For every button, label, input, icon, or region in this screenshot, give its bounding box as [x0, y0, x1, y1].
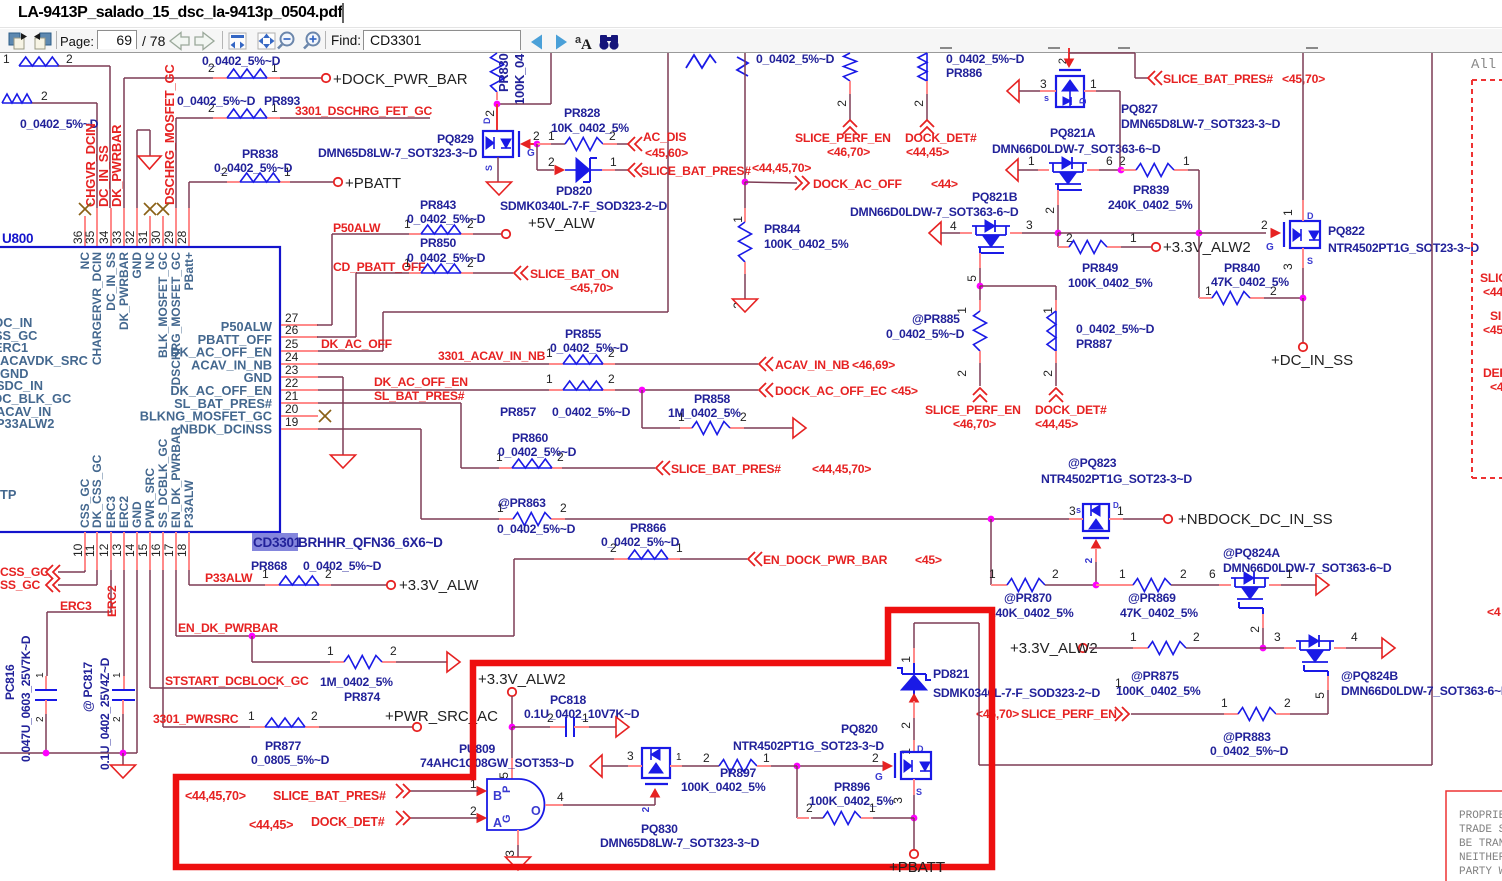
- wire pin23 gnd: [318, 377, 343, 455]
- svg-text:PROPRIET: PROPRIET: [1459, 810, 1502, 822]
- svg-text:12: 12: [97, 543, 111, 557]
- svg-text:<46,70>: <46,70>: [976, 707, 1019, 721]
- mosfet PQ821A dual: [1049, 157, 1087, 184]
- svg-text:2: 2: [483, 110, 497, 117]
- labels PR839: [1108, 183, 1193, 212]
- svg-text:PR855: PR855: [565, 327, 601, 341]
- svg-text:SDMK0340L-7-F_SOD323-2~D: SDMK0340L-7-F_SOD323-2~D: [933, 686, 1101, 700]
- wire row1 to pin 34: [58, 66, 110, 208]
- wire vertical x1432: [1431, 53, 1433, 765]
- cut component top b: [737, 57, 748, 76]
- svg-text:SLICE_PERF_EN: SLICE_PERF_EN: [925, 403, 1021, 417]
- port SLICE_PERF_EN bottom: [925, 388, 1021, 431]
- svg-text:2: 2: [899, 722, 913, 729]
- wire PR828 left: [533, 129, 565, 144]
- resistor PR843: [404, 217, 474, 234]
- svg-text:PR857: PR857: [500, 405, 536, 419]
- svg-text:DSCHRG_MOSFET_GC: DSCHRG_MOSFET_GC: [162, 64, 177, 205]
- resistor PR874: [327, 644, 397, 669]
- svg-text:2: 2: [1084, 557, 1095, 563]
- labels PR866: [601, 521, 680, 549]
- svg-text:1: 1: [1183, 154, 1190, 168]
- svg-text:3301_ACAV_IN_NB: 3301_ACAV_IN_NB: [438, 349, 546, 363]
- svg-text:2: 2: [1043, 207, 1057, 214]
- svg-text:DK_AC_OFF: DK_AC_OFF: [321, 337, 392, 351]
- power terminal +3.3V_ALW2 a: [1152, 239, 1251, 256]
- svg-text:+3.3V_ALW: +3.3V_ALW: [399, 577, 479, 594]
- svg-text:2: 2: [390, 644, 397, 658]
- svg-text:DC_IN_SS: DC_IN_SS: [104, 252, 118, 311]
- svg-text:DMN66D0LDW-7_SOT363-6~D: DMN66D0LDW-7_SOT363-6~D: [1223, 561, 1392, 575]
- svg-text:ERC3: ERC3: [60, 599, 92, 613]
- svg-text:PR897: PR897: [720, 766, 756, 780]
- junction PQ822 gate node: [1196, 230, 1203, 237]
- wire EN_DOCK_PWR_BAR net: [514, 558, 747, 560]
- svg-text:+5V_ALW: +5V_ALW: [528, 215, 596, 232]
- svg-text:PR838: PR838: [242, 147, 278, 161]
- net label DK_AC_OFF: [321, 337, 392, 351]
- labels PR893: [177, 94, 300, 108]
- gate bar PQ822: [1283, 222, 1285, 247]
- svg-text:2: 2: [548, 155, 555, 169]
- port SLICE_PERF_EN top: [795, 120, 891, 159]
- resistor PR897: [719, 751, 770, 773]
- svg-text:31: 31: [136, 230, 150, 244]
- pin3 PQ830: [590, 749, 642, 777]
- svg-text:+PBATT: +PBATT: [889, 859, 945, 876]
- svg-text:2: 2: [35, 716, 46, 722]
- wire PR869-PQ824A: [1171, 567, 1231, 585]
- svg-text:23: 23: [285, 363, 299, 377]
- svg-text:10K_0402_5%: 10K_0402_5%: [551, 121, 629, 135]
- pin 35 stub U800 top: [83, 208, 97, 247]
- svg-text:SLICE_BAT_PRES#: SLICE_BAT_PRES#: [1163, 72, 1273, 86]
- svg-text:DMN66D0LDW-7_SOT363-6~D: DMN66D0LDW-7_SOT363-6~D: [850, 205, 1019, 219]
- resistor PR839: [1136, 164, 1174, 177]
- svg-text:2: 2: [703, 751, 710, 765]
- labels PR868: [251, 559, 382, 573]
- net label STSTART_DCBLOCK_GC: [165, 674, 309, 688]
- labels PR849: [1068, 261, 1153, 290]
- resistor PR838: [221, 165, 291, 182]
- svg-text:G: G: [1266, 242, 1274, 253]
- mosfet PQ830: [642, 748, 670, 778]
- svg-text:CD3301: CD3301: [253, 535, 302, 550]
- wire PR844 bottom: [744, 262, 746, 299]
- svg-text:22: 22: [285, 376, 299, 390]
- wire 3301_DSCHRG_FET_GC: [176, 118, 430, 208]
- svg-text:CHARGERVR_DCIN: CHARGERVR_DCIN: [90, 252, 104, 365]
- wire to PR887: [980, 286, 1056, 314]
- resistor PR849: [1069, 241, 1107, 254]
- net label P33ALW: [205, 571, 253, 585]
- svg-text:SLICE_BAT_PRES#: SLICE_BAT_PRES#: [671, 462, 781, 476]
- pin3 PQ820: [891, 779, 922, 818]
- capacitor PC816: [3, 635, 57, 762]
- svg-text:D: D: [1113, 501, 1119, 510]
- svg-text:DMN66D0LDW-7_SOT363-6~D: DMN66D0LDW-7_SOT363-6~D: [992, 142, 1161, 156]
- resistor PR875: [1148, 630, 1200, 655]
- mosfet PQ822: [1290, 221, 1320, 248]
- svg-text:1: 1: [676, 752, 682, 763]
- svg-text:BE TRANS: BE TRANS: [1459, 838, 1502, 850]
- power symbol down triangle: [138, 156, 161, 169]
- wire vertical x745: [744, 53, 746, 182]
- diode PD821 zener: [897, 663, 931, 700]
- svg-text:3: 3: [1281, 263, 1295, 270]
- resistor PR896: [823, 801, 876, 825]
- svg-text:<45>: <45>: [891, 384, 918, 398]
- svg-text:BRHHR_QFN36_6X6~D: BRHHR_QFN36_6X6~D: [298, 535, 443, 550]
- svg-text:DOCK_AC_OFF: DOCK_AC_OFF: [813, 177, 902, 191]
- svg-text:G: G: [527, 148, 535, 159]
- off-page arrow PQ824B: [1382, 638, 1395, 658]
- svg-text:PR887: PR887: [1076, 337, 1112, 351]
- svg-text:2: 2: [740, 410, 747, 424]
- wire PQ827 gate top: [1057, 48, 1069, 64]
- svg-text:15: 15: [136, 543, 150, 557]
- svg-text:P33ALW2: P33ALW2: [0, 416, 54, 431]
- wire PR883 right: [1276, 713, 1328, 715]
- svg-text:35: 35: [83, 230, 97, 244]
- svg-text:+PWR_SRC_AC: +PWR_SRC_AC: [385, 708, 498, 725]
- pin 32 stub U800 top: [123, 208, 137, 247]
- svg-text:1: 1: [763, 751, 770, 765]
- pin 29 stub U800 top: [162, 208, 176, 247]
- pin 15 stub U800 bottom: [136, 532, 150, 570]
- svg-text:PR840: PR840: [1224, 261, 1260, 275]
- pin 26 stub U800 right: [281, 323, 318, 337]
- svg-text:1: 1: [731, 216, 745, 223]
- wire PD820 anode: [537, 144, 555, 170]
- labels PR840: [1211, 261, 1289, 289]
- junction PQ824B gate node: [1260, 645, 1267, 652]
- wire ERC2 net: [123, 570, 125, 690]
- junction PR885 node: [977, 283, 984, 290]
- labels PQ830: [600, 822, 760, 850]
- svg-text:PR850: PR850: [420, 236, 456, 250]
- labels PC818: [524, 693, 640, 721]
- off-page arrow PQ824A: [1316, 575, 1329, 595]
- wire PR896 left: [797, 766, 813, 818]
- gate arrow PQ829: [521, 140, 537, 149]
- svg-text:1: 1: [1281, 209, 1295, 216]
- pin3 PQ822: [1281, 248, 1313, 298]
- wire 3301_PWRSRC net: [163, 570, 413, 727]
- svg-text:28: 28: [175, 230, 189, 244]
- svg-text:2: 2: [560, 501, 567, 515]
- junction PR869: [1093, 582, 1100, 589]
- input B PU809: [396, 777, 486, 798]
- svg-text:PR896: PR896: [834, 780, 870, 794]
- net label 3301_ACAV_IN_NB: [438, 349, 546, 363]
- port DOCK_AC_OFF: [795, 176, 958, 191]
- svg-text:2: 2: [608, 372, 615, 386]
- gate PQ824B: [1304, 665, 1328, 714]
- svg-text:SLICE_PERF_EN: SLICE_PERF_EN: [1021, 707, 1117, 721]
- labels PR843: [407, 198, 486, 226]
- wire bottom right horizontal: [979, 764, 1432, 766]
- svg-text:STSTART_DCBLOCK_GC: STSTART_DCBLOCK_GC: [165, 674, 309, 688]
- svg-text:s: s: [1044, 93, 1049, 103]
- svg-text:2: 2: [955, 370, 969, 377]
- part value CD3301BRHHR_QFN36_6X6~D with find highlight: [252, 533, 443, 551]
- resistor PR869: [1133, 567, 1187, 592]
- svg-text:+3.3V_ALW2: +3.3V_ALW2: [1163, 239, 1251, 256]
- wire row2 to pin 35: [32, 103, 97, 208]
- svg-text:EN_DOCK_PWR_BAR: EN_DOCK_PWR_BAR: [763, 553, 888, 567]
- labels PD821: [933, 667, 1101, 700]
- svg-text:0_0402_5%~D: 0_0402_5%~D: [886, 327, 965, 341]
- wire ACAV_IN_NB net: [318, 363, 758, 365]
- margin label d: [1487, 605, 1501, 619]
- labels PR844: [764, 222, 849, 251]
- junction PQ820 source: [911, 815, 918, 822]
- wire PR874 branch: [252, 636, 447, 662]
- mosfet PQ820: [901, 752, 931, 779]
- svg-text:2: 2: [1248, 626, 1262, 633]
- svg-text:2: 2: [1193, 630, 1200, 644]
- svg-text:PQ821B: PQ821B: [972, 190, 1018, 204]
- svg-text:33: 33: [110, 230, 124, 244]
- svg-text:SI: SI: [1490, 309, 1501, 323]
- svg-text:<46,70>: <46,70>: [953, 417, 996, 431]
- net label SLICE_BAT_PRES# box: [185, 789, 386, 803]
- svg-text:240K_0402_5%: 240K_0402_5%: [1108, 198, 1193, 212]
- svg-text:PR830: PR830: [496, 53, 511, 92]
- svg-text:NTR4502PT1G_SOT23-3~D: NTR4502PT1G_SOT23-3~D: [733, 739, 884, 753]
- pin 22 stub U800 right: [281, 376, 318, 390]
- svg-text:<45,60>: <45,60>: [645, 146, 688, 160]
- wire PQ820 gate: [797, 765, 883, 767]
- labels PR886: [946, 52, 1025, 80]
- highlight thick red selection box: [176, 610, 992, 867]
- resistor PR886: [912, 53, 927, 120]
- junction PR896-PR897: [794, 763, 801, 770]
- svg-text:<4: <4: [1487, 605, 1501, 619]
- port ACAV_IN_NB: [759, 357, 895, 372]
- svg-text:2: 2: [1041, 370, 1055, 377]
- svg-text:5: 5: [1313, 692, 1327, 699]
- svg-text:2: 2: [41, 89, 48, 103]
- svg-text:2: 2: [470, 804, 477, 818]
- svg-text:GND: GND: [130, 501, 144, 528]
- svg-text:@PR883: @PR883: [1223, 730, 1271, 744]
- pin1 PQ823: [1109, 501, 1163, 519]
- labels PR869: [1120, 591, 1198, 620]
- power terminal +PBATT2: [889, 850, 945, 876]
- svg-text:SS_GC: SS_GC: [0, 578, 41, 592]
- pin net DK_PWRBAR: [109, 124, 124, 207]
- resistor PR860: [496, 450, 564, 468]
- labels PR828: [551, 106, 629, 135]
- svg-text:@PR863: @PR863: [498, 496, 546, 510]
- svg-text:DEF: DEF: [1483, 366, 1502, 380]
- net label SLICE_PERF_EN right: [976, 707, 1117, 721]
- resistor PR883: [1238, 696, 1291, 721]
- svg-text:1: 1: [1130, 630, 1137, 644]
- margin label c: [1483, 366, 1502, 394]
- resistor PR858: [678, 410, 747, 435]
- svg-text:@PR869: @PR869: [1128, 591, 1176, 605]
- svg-text:17: 17: [162, 543, 176, 557]
- svg-text:6: 6: [1209, 567, 1216, 581]
- wire CD_PBATT_OFF net: [317, 273, 513, 337]
- svg-text:PR844: PR844: [764, 222, 800, 236]
- svg-text:S: S: [916, 787, 922, 797]
- gate bar PQ827: [1059, 69, 1081, 71]
- svg-text:PR868: PR868: [251, 559, 287, 573]
- svg-text:3: 3: [1026, 218, 1033, 232]
- wire PD821 to PQ820: [899, 718, 924, 755]
- svg-text:0_0402_5%~D: 0_0402_5%~D: [552, 405, 631, 419]
- resistor PR866: [610, 541, 683, 559]
- svg-text:3: 3: [1040, 77, 1047, 91]
- pin 20 stub U800 right: [281, 402, 318, 416]
- power terminal +PWR_SRC_AC: [385, 708, 498, 731]
- pin3 PQ821B: [1010, 218, 1058, 233]
- pin 17 stub U800 bottom: [162, 532, 176, 570]
- svg-text:NTR4502PT1G_SOT23-3~D: NTR4502PT1G_SOT23-3~D: [1328, 241, 1479, 255]
- wire DOCK_AC_OFF_EC net: [318, 389, 758, 391]
- svg-text:13: 13: [110, 543, 124, 557]
- svg-text:1: 1: [899, 656, 913, 663]
- wire to PQ822 gate: [1058, 232, 1199, 234]
- resistor PR850: [404, 256, 474, 273]
- svg-text:<44: <44: [1483, 285, 1502, 299]
- labels PR855: [550, 327, 629, 355]
- input A PU809: [396, 804, 486, 825]
- svg-text:11: 11: [83, 544, 97, 557]
- wire P33ALW net: [189, 570, 387, 585]
- labels PR874: [320, 675, 393, 704]
- svg-text:100K_0402_5%: 100K_0402_5%: [1068, 276, 1153, 290]
- labels PQ823: [1041, 456, 1192, 486]
- svg-text:100K_0402_5%: 100K_0402_5%: [764, 237, 849, 251]
- resistor PR844: [731, 222, 752, 309]
- svg-text:2: 2: [835, 100, 849, 107]
- svg-text:P50ALW: P50ALW: [333, 221, 381, 235]
- wire STSTART_DCBLOCK_GC: [150, 570, 278, 688]
- svg-text:16: 16: [149, 543, 163, 557]
- pin 11 stub U800 bottom: [83, 532, 97, 570]
- toolbar icons: [9, 33, 619, 54]
- value label 0_0402_5%~D left: [20, 117, 99, 131]
- gate bar PQ830: [645, 783, 668, 785]
- svg-text:DMN65D8LW-7_SOT323-3~D: DMN65D8LW-7_SOT323-3~D: [600, 836, 760, 850]
- svg-text:@PQ824B: @PQ824B: [1341, 669, 1398, 683]
- junction PQ821B drain: [1055, 230, 1062, 237]
- wire PR887 bottom: [1041, 351, 1056, 386]
- resistor PR830 vertical: [491, 53, 528, 105]
- svg-text:DK_AC_OFF_EN: DK_AC_OFF_EN: [374, 375, 468, 389]
- cut gray marks top: [940, 47, 1318, 49]
- labels PR887: [1076, 322, 1155, 351]
- pin 23 stub U800 right: [281, 363, 318, 377]
- svg-text:0_0402_5%~D: 0_0402_5%~D: [550, 341, 629, 355]
- chevron SLICE_PERF_EN: [1115, 707, 1129, 721]
- svg-text:0_0402_5%~D: 0_0402_5%~D: [1210, 744, 1289, 758]
- pin 30 stub U800 top: [149, 216, 163, 247]
- junctions ground rail: [43, 750, 127, 757]
- labels PR897: [681, 766, 766, 794]
- svg-text:3: 3: [627, 749, 634, 763]
- power terminal +DOCK_PWR_BAR: [322, 71, 468, 88]
- margin label b: [1483, 309, 1502, 337]
- svg-text:@PQ824A: @PQ824A: [1223, 546, 1280, 560]
- capacitor PC817: [81, 657, 135, 770]
- resistor PR885: [974, 311, 987, 351]
- svg-text:1: 1: [1028, 154, 1035, 168]
- svg-text:@PR885: @PR885: [912, 312, 960, 326]
- svg-text:PQ830: PQ830: [641, 822, 678, 836]
- gate arrow PQ820: [872, 751, 892, 783]
- junction PR857-PR858: [639, 387, 646, 394]
- pin2 PD821 arrow: [899, 694, 919, 729]
- port EN_DOCK_PWR_BAR: [748, 552, 942, 567]
- ic U800 CD3301 controller: [0, 231, 280, 532]
- wire PD821 loop: [899, 623, 979, 765]
- wire PR870 left: [989, 519, 1007, 585]
- svg-text:34: 34: [97, 230, 111, 244]
- labels PR860: [498, 431, 577, 459]
- svg-text:DOCK_DET#: DOCK_DET#: [905, 131, 977, 145]
- net label ERC2 vertical: [105, 585, 119, 617]
- pin 10 stub U800 bottom: [71, 532, 85, 570]
- svg-text:100K_0402_5%: 100K_0402_5%: [1116, 684, 1201, 698]
- pin net DSCHRG_MOSFET_GC: [162, 64, 177, 205]
- svg-text:PR866: PR866: [630, 521, 666, 535]
- pin3 PU809: [503, 830, 518, 857]
- resistor PR855: [546, 346, 615, 364]
- svg-text:2: 2: [1261, 218, 1268, 232]
- wire PQ827 to PQ821A: [1119, 91, 1121, 170]
- svg-text:3: 3: [1069, 504, 1076, 518]
- svg-text:0_0402_5%~D: 0_0402_5%~D: [1076, 322, 1155, 336]
- svg-text:BLK_MOSFET_GC: BLK_MOSFET_GC: [156, 252, 170, 358]
- svg-text:3: 3: [1274, 630, 1281, 644]
- resistor top-left row2: [2, 89, 48, 103]
- resistor PR828: [565, 129, 616, 151]
- port SS_GC: [0, 570, 97, 592]
- labels PQ827: [1121, 102, 1281, 131]
- svg-text:0_0402_5%~D: 0_0402_5%~D: [498, 445, 577, 459]
- svg-text:2: 2: [1180, 567, 1187, 581]
- svg-text:0_0402_5%~D: 0_0402_5%~D: [946, 52, 1025, 66]
- svg-text:P33ALW: P33ALW: [182, 479, 196, 528]
- wire PR875-PQ824B: [1186, 630, 1296, 648]
- labels PR870: [989, 591, 1074, 620]
- wire ground rail: [0, 570, 137, 753]
- mosfet PQ823: [1083, 504, 1109, 531]
- svg-text:DMN65D8LW-7_SOT323-3~D: DMN65D8LW-7_SOT323-3~D: [1121, 117, 1281, 131]
- svg-text:s: s: [1076, 505, 1081, 515]
- wire SLICE_BAT_PRES# top right: [1069, 53, 1148, 78]
- svg-text:1: 1: [1221, 696, 1228, 710]
- labels PQ829: [318, 132, 478, 160]
- svg-text:G: G: [875, 772, 883, 783]
- svg-text:SLICE_BAT_PRES#: SLICE_BAT_PRES#: [641, 164, 751, 178]
- svg-text:0_0402_5%~D: 0_0402_5%~D: [407, 212, 486, 226]
- svg-text:0_0402_5%~D: 0_0402_5%~D: [407, 251, 486, 265]
- wire PR869 left: [1096, 567, 1133, 585]
- gate PQ821B: [965, 247, 1004, 286]
- wire DSCHRG jog: [137, 130, 150, 208]
- net label 3301_DSCHRG_FET_GC: [295, 104, 433, 118]
- net label DOCK_DET# box: [249, 815, 385, 832]
- svg-text:SDMK0340L-7-F_SOD323-2~D: SDMK0340L-7-F_SOD323-2~D: [500, 199, 668, 213]
- ground symbol rail: [111, 753, 136, 778]
